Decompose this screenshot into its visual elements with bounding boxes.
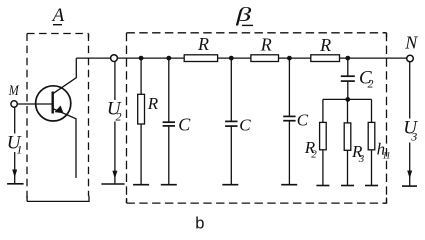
- svg-text:R: R: [260, 34, 272, 54]
- svg-text:C: C: [297, 110, 309, 129]
- svg-text:1: 1: [16, 143, 22, 157]
- svg-text:b: b: [195, 214, 204, 232]
- svg-text:N: N: [404, 33, 418, 53]
- svg-text:M: M: [8, 82, 19, 99]
- svg-text:3: 3: [358, 153, 365, 165]
- svg-text:R: R: [319, 35, 331, 55]
- svg-text:2: 2: [116, 109, 122, 123]
- svg-text:R: R: [147, 94, 159, 113]
- svg-text:β: β: [235, 3, 251, 26]
- svg-text:C: C: [239, 115, 251, 134]
- svg-text:2: 2: [368, 77, 374, 91]
- svg-text:R: R: [197, 34, 209, 54]
- svg-text:2: 2: [311, 149, 317, 161]
- svg-text:3: 3: [410, 130, 417, 144]
- svg-text:A: A: [51, 5, 65, 26]
- svg-text:11: 11: [382, 152, 390, 162]
- svg-text:C: C: [178, 115, 191, 135]
